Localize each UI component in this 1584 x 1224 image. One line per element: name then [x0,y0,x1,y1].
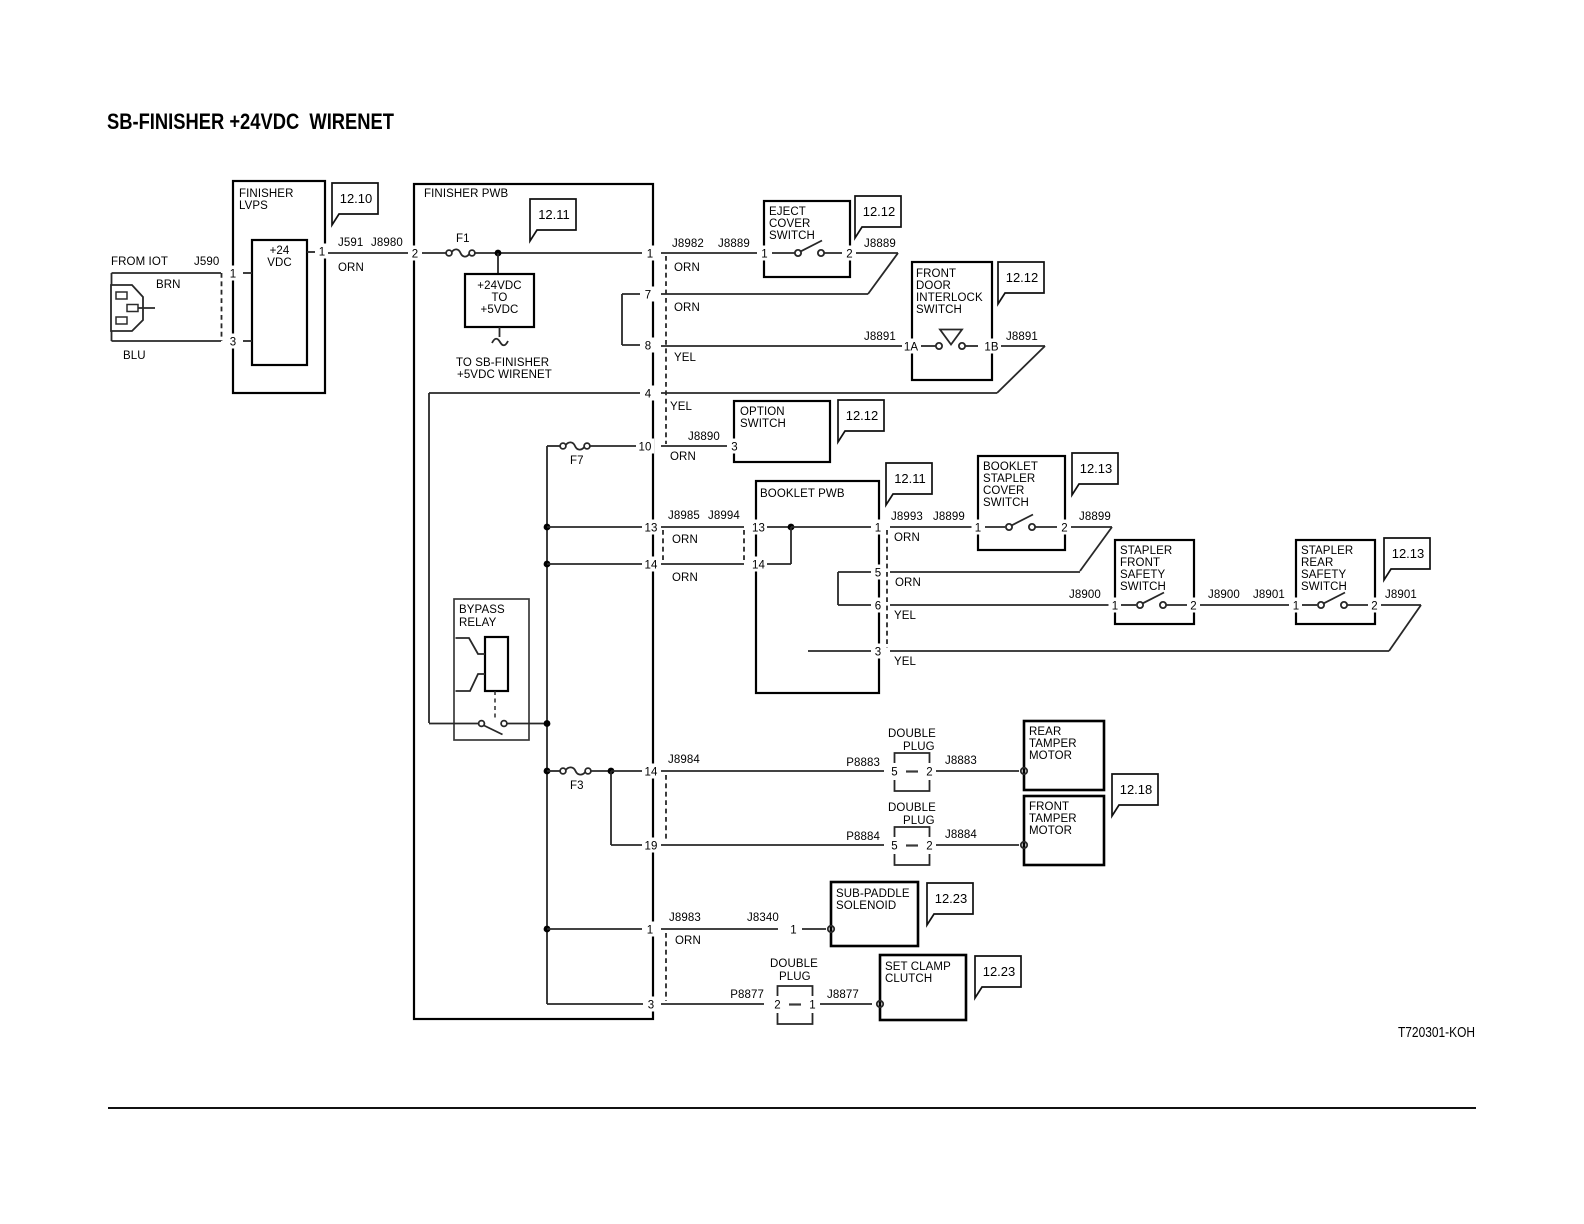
svg-text:2: 2 [412,249,419,261]
svg-text:J8982: J8982 [672,238,704,250]
svg-text:INTERLOCK: INTERLOCK [916,292,983,304]
svg-text:COVER: COVER [983,485,1024,497]
svg-text:REAR: REAR [1301,557,1333,569]
svg-text:19: 19 [645,841,658,853]
svg-text:J8890: J8890 [688,431,720,443]
svg-text:FINISHER: FINISHER [239,188,293,200]
svg-text:12.23: 12.23 [983,964,1016,979]
svg-text:10: 10 [639,442,652,454]
svg-text:MOTOR: MOTOR [1029,750,1072,762]
svg-text:7: 7 [645,290,652,302]
svg-text:DOOR: DOOR [916,280,951,292]
svg-text:12.12: 12.12 [863,204,896,219]
svg-text:1: 1 [1293,601,1300,613]
svg-text:+24: +24 [270,245,290,257]
svg-text:14: 14 [645,560,658,572]
svg-text:J8901: J8901 [1385,589,1417,601]
svg-text:2: 2 [926,841,933,853]
svg-text:FINISHER PWB: FINISHER PWB [424,188,508,200]
svg-text:FRONT: FRONT [1029,801,1069,813]
svg-text:STAPLER: STAPLER [983,473,1035,485]
svg-text:SWITCH: SWITCH [1120,581,1166,593]
svg-text:CLUTCH: CLUTCH [885,973,932,985]
svg-text:+24VDC: +24VDC [477,280,521,292]
svg-text:1: 1 [647,249,654,261]
svg-text:J591: J591 [338,237,363,249]
svg-text:F1: F1 [456,233,470,245]
svg-text:13: 13 [645,523,658,535]
svg-text:VDC: VDC [267,257,292,269]
svg-text:14: 14 [752,560,765,572]
svg-text:J8900: J8900 [1208,589,1240,601]
svg-text:5: 5 [891,767,898,779]
svg-text:+5VDC: +5VDC [481,304,519,316]
svg-text:J8993: J8993 [891,511,923,523]
svg-text:BLU: BLU [123,350,146,362]
svg-text:PLUG: PLUG [779,971,811,983]
svg-text:REAR: REAR [1029,726,1061,738]
svg-text:P8883: P8883 [846,757,880,769]
svg-text:BOOKLET PWB: BOOKLET PWB [760,488,845,500]
svg-text:J8980: J8980 [371,237,403,249]
svg-text:J8889: J8889 [718,238,750,250]
svg-text:12.12: 12.12 [1006,270,1039,285]
svg-text:12.11: 12.11 [894,471,926,486]
svg-text:5: 5 [891,841,898,853]
svg-text:1: 1 [875,523,882,535]
svg-text:TAMPER: TAMPER [1029,738,1077,750]
svg-text:2: 2 [846,249,853,261]
svg-text:1B: 1B [984,342,998,354]
svg-text:DOUBLE: DOUBLE [888,728,936,740]
svg-text:ORN: ORN [895,577,921,589]
svg-text:ORN: ORN [672,572,698,584]
svg-text:F3: F3 [570,780,584,792]
svg-text:J8884: J8884 [945,829,977,841]
svg-text:SAFETY: SAFETY [1120,569,1166,581]
svg-text:1: 1 [1112,601,1119,613]
svg-text:1: 1 [230,269,237,281]
svg-text:J8901: J8901 [1253,589,1285,601]
svg-text:3: 3 [230,337,237,349]
svg-text:ORN: ORN [894,532,920,544]
svg-text:SWITCH: SWITCH [769,230,815,242]
svg-text:1A: 1A [904,342,918,354]
svg-text:DOUBLE: DOUBLE [888,802,936,814]
svg-text:SWITCH: SWITCH [1301,581,1347,593]
svg-text:YEL: YEL [894,656,917,668]
svg-text:2: 2 [1061,523,1068,535]
svg-text:12.18: 12.18 [1120,782,1153,797]
svg-text:12.11: 12.11 [538,207,570,222]
svg-text:SAFETY: SAFETY [1301,569,1347,581]
svg-text:FRONT: FRONT [1120,557,1160,569]
svg-text:STAPLER: STAPLER [1301,545,1353,557]
svg-text:SOLENOID: SOLENOID [836,900,896,912]
svg-text:13: 13 [752,523,765,535]
svg-text:EJECT: EJECT [769,206,806,218]
svg-text:2: 2 [774,1000,781,1012]
svg-text:LVPS: LVPS [239,200,268,212]
svg-text:ORN: ORN [672,534,698,546]
svg-text:3: 3 [648,1000,655,1012]
svg-text:1: 1 [647,925,654,937]
svg-text:FRONT: FRONT [916,268,956,280]
svg-text:J8891: J8891 [1006,331,1038,343]
svg-text:1: 1 [975,523,982,535]
svg-text:MOTOR: MOTOR [1029,825,1072,837]
svg-text:P8884: P8884 [846,831,880,843]
svg-text:BOOKLET: BOOKLET [983,461,1038,473]
svg-text:YEL: YEL [894,610,917,622]
svg-text:TO SB-FINISHER: TO SB-FINISHER [456,357,549,369]
svg-text:J8985: J8985 [668,510,700,522]
svg-text:TAMPER: TAMPER [1029,813,1077,825]
svg-text:FROM IOT: FROM IOT [111,256,168,268]
svg-text:8: 8 [645,341,652,353]
svg-text:+5VDC WIRENET: +5VDC WIRENET [457,369,552,381]
svg-text:SWITCH: SWITCH [916,304,962,316]
svg-text:TO: TO [492,292,508,304]
svg-text:14: 14 [645,767,658,779]
svg-text:12.12: 12.12 [846,408,879,423]
svg-text:F7: F7 [570,455,584,467]
svg-text:3: 3 [731,442,738,454]
svg-text:PLUG: PLUG [903,741,935,753]
svg-text:DOUBLE: DOUBLE [770,958,818,970]
svg-text:ORN: ORN [674,262,700,274]
svg-text:J8877: J8877 [827,989,859,1001]
svg-text:J8900: J8900 [1069,589,1101,601]
svg-text:P8877: P8877 [730,989,764,1001]
svg-text:ORN: ORN [670,451,696,463]
svg-text:PLUG: PLUG [903,815,935,827]
svg-text:3: 3 [875,647,882,659]
svg-text:SB-FINISHER +24VDC WIRENET: SB-FINISHER +24VDC WIRENET [107,109,394,134]
svg-text:12.13: 12.13 [1392,546,1425,561]
svg-text:J8983: J8983 [669,912,701,924]
svg-text:J8984: J8984 [668,754,700,766]
svg-text:SET CLAMP: SET CLAMP [885,961,951,973]
svg-text:4: 4 [645,389,652,401]
svg-text:ORN: ORN [674,302,700,314]
svg-text:YEL: YEL [674,352,697,364]
svg-text:1: 1 [319,247,326,259]
svg-text:STAPLER: STAPLER [1120,545,1172,557]
svg-text:YEL: YEL [670,401,693,413]
svg-text:COVER: COVER [769,218,810,230]
svg-text:1: 1 [790,925,797,937]
svg-text:OPTION: OPTION [740,406,785,418]
svg-text:12.10: 12.10 [340,191,373,206]
svg-text:5: 5 [875,568,882,580]
svg-text:J8891: J8891 [864,331,896,343]
svg-text:J8889: J8889 [864,238,896,250]
svg-text:J590: J590 [194,256,219,268]
svg-text:ORN: ORN [338,262,364,274]
svg-text:BYPASS: BYPASS [459,604,505,616]
svg-text:RELAY: RELAY [459,617,497,629]
svg-text:T720301-KOH: T720301-KOH [1398,1025,1475,1041]
svg-text:J8340: J8340 [747,912,779,924]
svg-text:SWITCH: SWITCH [740,418,786,430]
svg-text:2: 2 [1371,601,1378,613]
svg-text:J8994: J8994 [708,510,740,522]
svg-text:SWITCH: SWITCH [983,497,1029,509]
svg-text:J8899: J8899 [933,511,965,523]
svg-text:2: 2 [1190,601,1197,613]
svg-text:BRN: BRN [156,279,181,291]
svg-text:1: 1 [761,249,768,261]
svg-text:J8899: J8899 [1079,511,1111,523]
svg-text:J8883: J8883 [945,755,977,767]
svg-text:12.23: 12.23 [935,891,968,906]
svg-text:12.13: 12.13 [1080,461,1113,476]
svg-text:6: 6 [875,601,882,613]
svg-text:SUB-PADDLE: SUB-PADDLE [836,888,910,900]
svg-text:2: 2 [926,767,933,779]
svg-text:1: 1 [809,1000,816,1012]
svg-text:ORN: ORN [675,935,701,947]
